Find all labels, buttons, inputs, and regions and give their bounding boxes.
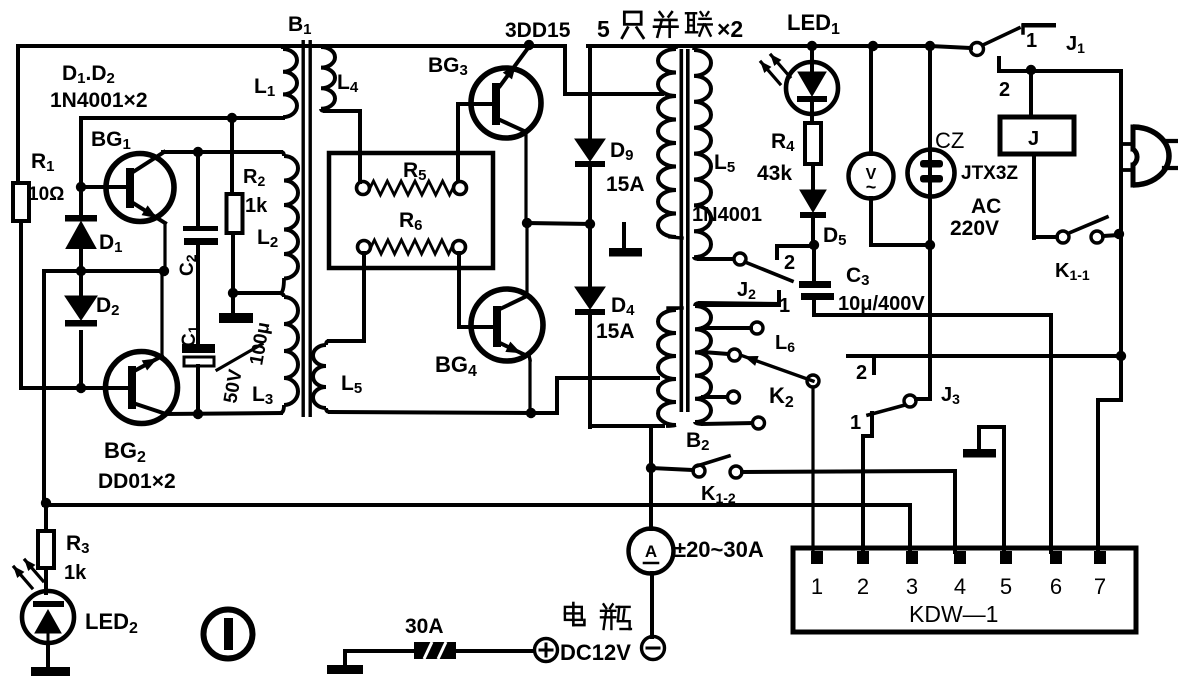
label R3 (66, 532, 90, 557)
label BG4 (435, 352, 477, 380)
wire R1 bottom to BG2 base rail (21, 386, 129, 390)
label BG3 (428, 54, 468, 79)
wire V to CZ junction (871, 243, 930, 247)
transformer B1 core (302, 40, 312, 417)
node CZ top (925, 41, 935, 51)
wire BG1 collector rail (163, 150, 281, 154)
label 30A (405, 615, 444, 638)
wire right riser (1098, 71, 1121, 552)
bottom bus (44, 505, 910, 552)
diode D1 (65, 215, 97, 249)
label V meter (866, 166, 877, 197)
node D1-D2 junction (76, 266, 86, 276)
node relay J top (1026, 65, 1036, 75)
svg-text:A: A (645, 542, 657, 561)
svg-text:1: 1 (850, 412, 861, 434)
switch J3 pole (868, 395, 930, 415)
label BG1 (91, 128, 131, 153)
label J2 (737, 279, 756, 302)
label K1-1 (1055, 260, 1090, 283)
svg-text:3DD15: 3DD15 (505, 19, 571, 42)
resistor R6 (358, 240, 466, 254)
label 43k (757, 162, 792, 185)
label 15A D9 (606, 173, 645, 196)
cap spec slash (217, 344, 262, 370)
winding B2 secondary L5 (694, 46, 733, 259)
label L3 (252, 383, 273, 408)
winding L4 (321, 46, 360, 182)
label 1N4001 D5 (692, 204, 762, 226)
svg-text:7: 7 (1094, 574, 1106, 599)
label D4 (611, 294, 635, 319)
label A meter (644, 542, 658, 563)
label 3DD15 (505, 19, 571, 42)
svg-text:30A: 30A (405, 615, 444, 638)
label L5 primary (341, 372, 362, 397)
wire K2 to KDW pin1 (811, 387, 814, 552)
LED2 light arrows (14, 560, 43, 588)
node K1-1 right (1114, 229, 1124, 239)
LED2 (22, 591, 74, 667)
label D1.D2 (62, 62, 115, 87)
resistor R5 (357, 181, 467, 195)
resistor R3 (38, 505, 54, 593)
label L4 (337, 71, 359, 96)
switch J1 contact 1 (1022, 23, 1056, 33)
svg-text:2: 2 (857, 574, 869, 599)
svg-text:1k: 1k (64, 562, 87, 584)
svg-text:1: 1 (1026, 30, 1037, 52)
node BG1 base (76, 182, 86, 192)
label J1 (1066, 33, 1085, 56)
label JTX3Z (961, 163, 1018, 184)
svg-text:15A: 15A (606, 173, 645, 196)
node J3 bus right (1116, 351, 1126, 361)
label ammeter range (674, 537, 764, 562)
label LED2 (85, 609, 138, 637)
svg-text:AC: AC (971, 195, 1001, 218)
indicator symbol (204, 610, 253, 659)
label L5 secondary (714, 151, 735, 176)
label D1 (99, 231, 123, 256)
wire C3 bottom to KDW pin6 (814, 315, 1051, 552)
resistor R2 (227, 194, 243, 293)
label DD01x2 (98, 470, 176, 493)
label 1N4001x2 (50, 89, 148, 112)
wire battery to fuse (456, 649, 534, 653)
switch K1-2 (651, 456, 955, 478)
winding L5 primary (313, 253, 364, 412)
KDW pins (811, 551, 1106, 564)
svg-text:DC12V: DC12V (560, 640, 631, 665)
L6 tap 1 (703, 322, 763, 334)
svg-text:10Ω: 10Ω (28, 184, 64, 205)
label 15A D4 (596, 320, 635, 343)
fuse 30A (414, 642, 456, 659)
svg-text:6: 6 (1050, 574, 1062, 599)
node CZ junction (925, 240, 935, 250)
wire R5 to BG3 base (458, 104, 492, 181)
switch K2 (743, 356, 819, 387)
label pin 2 (857, 574, 869, 599)
wire J3 bus (848, 354, 1121, 358)
wire top-left rail (18, 46, 284, 183)
label C1 rotated (179, 325, 201, 347)
switch J1 pole (930, 28, 1019, 56)
label R1 (31, 150, 55, 175)
label DC12V (560, 640, 631, 665)
label D5 (823, 224, 847, 249)
ground at fuse (327, 665, 363, 674)
switch J3 contact 2 (872, 357, 876, 373)
svg-text:4: 4 (954, 574, 966, 599)
label pin 3 (906, 574, 918, 599)
winding B2 primary upper (658, 46, 682, 238)
label LED1 (787, 10, 840, 38)
wire L2-L3 tap (233, 291, 280, 295)
label L2 (257, 226, 278, 251)
svg-text:1: 1 (779, 295, 790, 317)
winding L2 (280, 152, 298, 293)
wire emitter jog to B2 tap (531, 378, 658, 413)
label B1 (288, 13, 312, 38)
node C2 top (193, 147, 203, 157)
wire R2 top lead (230, 118, 234, 194)
label 1k R2 (245, 195, 268, 217)
ammeter A (629, 529, 674, 638)
label J3 contact 1 (850, 412, 861, 434)
KDW-1 box (793, 548, 1136, 632)
wire BG2 collector (160, 271, 163, 356)
label C3 (846, 264, 870, 289)
label L6 (775, 332, 795, 355)
voltmeter V (849, 46, 894, 245)
label 5 parallel x2 (597, 12, 743, 42)
label R2 (243, 166, 265, 189)
winding B2 primary lower (658, 308, 682, 426)
svg-text:1N4001×2: 1N4001×2 (50, 89, 148, 112)
wire emitter bottom rail (166, 413, 281, 414)
svg-text:3: 3 (906, 574, 918, 599)
node push-pull collectors (522, 218, 532, 228)
switch J1 contact 2 (999, 58, 1121, 71)
node R3 top (41, 498, 51, 508)
switch J3 contact 1 to pin2 (863, 413, 872, 552)
label 10ohm (28, 184, 64, 205)
label BG2 (104, 438, 146, 466)
wire top-right rail (588, 44, 930, 48)
transistor BG3 (471, 48, 541, 138)
wire junction rail (44, 271, 164, 503)
label 100u rotated (246, 321, 274, 367)
label pin 5 (1000, 574, 1012, 599)
diode D9 15A (575, 46, 605, 224)
svg-text:15A: 15A (596, 320, 635, 343)
wire K1-2 to pin4 (953, 471, 957, 552)
label pin 6 (1050, 574, 1062, 599)
label pin 4 (954, 574, 966, 599)
svg-text:J: J (1028, 128, 1039, 150)
label L1 (254, 75, 275, 100)
label J1 contact 1 (1026, 30, 1037, 52)
svg-text:CZ: CZ (935, 128, 964, 153)
node R2 bottom (228, 288, 238, 298)
label J2 contact 1 (779, 295, 790, 317)
node L1 bottom (227, 113, 237, 123)
label J1 contact 2 (999, 79, 1010, 101)
label K2 (769, 383, 794, 411)
svg-text:2: 2 (784, 252, 795, 274)
wire D1 to junction (79, 247, 83, 271)
wire L5 bottom to BG4 emitter (330, 412, 531, 413)
node BG4 emitter (526, 408, 536, 418)
label R4 (771, 130, 795, 155)
diode D4 15A (575, 224, 605, 427)
wire top rail middle (284, 44, 565, 48)
switch J2 pole (734, 253, 792, 281)
wire BG3 collector down (524, 131, 527, 223)
switch J2 contact 1 (700, 292, 779, 305)
node LED1 top (807, 41, 817, 51)
resistor R1 (13, 183, 29, 388)
label R5 (403, 159, 427, 184)
transistor BG1 (106, 152, 174, 271)
label K1-2 (701, 483, 736, 506)
winding L3 (280, 293, 298, 413)
node V meter (868, 41, 878, 51)
transistor BG4 (471, 289, 543, 361)
capacitor C1 (182, 344, 215, 414)
svg-text:2: 2 (999, 79, 1010, 101)
svg-text:5: 5 (597, 16, 610, 42)
label 50V rotated (220, 368, 247, 405)
wire fuse to ground (345, 651, 414, 666)
wire BG1 base lead (81, 185, 126, 189)
wire R6 to BG4 base (459, 253, 492, 327)
wire winding to ammeter node (649, 426, 653, 468)
label J3 contact 2 (856, 362, 867, 384)
mains plug (1121, 127, 1178, 185)
node emitter-collector tie (159, 266, 169, 276)
switch J2 contact 2 (777, 246, 812, 258)
wire top rail corner to B2 tap (565, 46, 662, 94)
svg-text:5: 5 (1000, 574, 1012, 599)
label pin 1 (811, 574, 823, 599)
label D9 (610, 139, 634, 164)
wire D4 to winding bottom (590, 424, 663, 428)
wire node to ammeter (649, 468, 653, 529)
label J2 contact 2 (784, 252, 795, 274)
svg-text:10μ/400V: 10μ/400V (838, 293, 925, 315)
node 3DD15 top (524, 40, 534, 50)
winding L1 (232, 46, 297, 118)
transformer B2 core (680, 49, 690, 412)
ground at D9 (609, 224, 642, 257)
label C2 rotated (177, 254, 199, 276)
svg-text:220V: 220V (950, 217, 999, 240)
label 10u 400V (838, 293, 925, 315)
L6 tap 2 (703, 349, 741, 361)
node C1 bottom (193, 409, 203, 419)
resistor R4 43k (805, 123, 821, 190)
svg-text:2: 2 (856, 362, 867, 384)
diode D2 (65, 271, 97, 388)
label J3 (941, 384, 960, 407)
svg-text:1k: 1k (245, 195, 268, 217)
label AC (971, 195, 1001, 218)
svg-text:DD01×2: DD01×2 (98, 470, 176, 493)
svg-text:JTX3Z: JTX3Z (961, 163, 1018, 184)
L6 bottom terminal (703, 417, 765, 429)
L6 tap 3 (703, 391, 740, 403)
battery minus terminal (642, 637, 665, 660)
svg-text:KDW—1: KDW—1 (909, 601, 998, 627)
socket CZ (908, 46, 955, 399)
svg-text:±20~30A: ±20~30A (674, 537, 764, 562)
label CZ (935, 128, 964, 153)
label 220V (950, 217, 999, 240)
transistor BG2 (106, 352, 178, 424)
svg-text:1: 1 (811, 574, 823, 599)
svg-text:×2: ×2 (717, 16, 743, 42)
switch K1-1 (1034, 217, 1119, 243)
node D2 cathode junction (76, 383, 86, 393)
winding L6 (695, 303, 779, 424)
ground at pin5 (963, 427, 1004, 552)
node B2 return (646, 463, 656, 473)
label B2 (686, 429, 710, 454)
label 1k R3 (64, 562, 87, 584)
ground below LED2 (31, 667, 70, 676)
svg-text:43k: 43k (757, 162, 792, 185)
capacitor 100u plate (219, 293, 253, 323)
wire BG4 emitter down (529, 355, 530, 413)
label R6 (399, 209, 423, 234)
battery plus terminal (535, 639, 558, 662)
label KDW-1 (909, 601, 998, 627)
label pin 7 (1094, 574, 1106, 599)
wire base feedback from L1 (81, 118, 232, 215)
wire collector node to D9 (527, 223, 590, 224)
label D2 (96, 294, 120, 319)
LED1 light arrows (761, 55, 790, 84)
capacitor C3 10u400V (799, 245, 834, 315)
label battery hanzi (565, 603, 631, 629)
svg-text:~: ~ (866, 177, 877, 197)
resistor box R5 R6 (329, 153, 493, 268)
LED1 (786, 46, 838, 123)
relay J (1000, 71, 1074, 238)
capacitor C2 (183, 152, 218, 344)
svg-text:1N4001: 1N4001 (692, 204, 762, 226)
node D5 C3 junction (809, 240, 819, 250)
node D9 junction (585, 219, 595, 229)
label J relay (1028, 128, 1039, 150)
wire BG4 collector up (525, 223, 528, 296)
diode D5 1N4001 (800, 190, 826, 245)
